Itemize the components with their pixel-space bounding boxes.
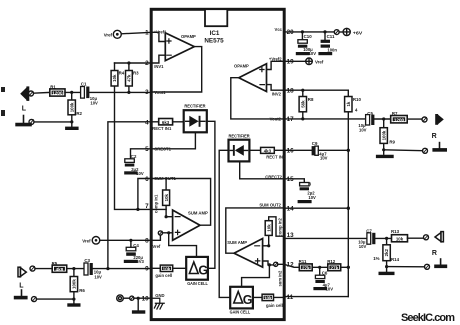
wire pin 13 to C7 xyxy=(284,237,367,239)
resistor R12 27k xyxy=(327,259,340,271)
wire pin 16 to C9 xyxy=(284,149,311,151)
wire pin 17 to C5 xyxy=(284,118,365,120)
resistor R10 1k xyxy=(345,97,362,297)
svg-text:gain cell: gain cell xyxy=(266,303,283,308)
ground (R14) xyxy=(380,272,393,275)
svg-text:11: 11 xyxy=(287,294,294,301)
svg-text:comp in1: comp in1 xyxy=(154,194,159,213)
node R6 top xyxy=(72,267,75,270)
svg-text:GND: GND xyxy=(155,293,164,298)
pin 17 xyxy=(270,116,294,123)
node C9 junction xyxy=(347,149,350,152)
wire C7 to R13 xyxy=(375,237,391,239)
terminal Vref (pin 1) xyxy=(104,30,151,38)
svg-text:R10: R10 xyxy=(353,97,362,102)
node R12 junction xyxy=(347,266,350,269)
svg-text:4k8: 4k8 xyxy=(56,267,64,272)
capacitor C3 10u 10V xyxy=(84,258,102,279)
op-amp OPAMP1 (channel 1, pins 1-3) xyxy=(165,33,196,61)
svg-text:RECT IN2: RECT IN2 xyxy=(266,154,286,159)
ground (C10) xyxy=(297,52,308,55)
op-amp OPAMP2 (channel 2, pins 17-19) xyxy=(234,63,267,91)
svg-text:CRECT2: CRECT2 xyxy=(265,174,282,179)
pin 11 xyxy=(287,294,294,301)
svg-text:R8: R8 xyxy=(308,97,314,102)
wire rectifier1 bottom to pin 5 xyxy=(151,132,195,149)
pin 15 xyxy=(265,174,294,183)
resistor R3 47k xyxy=(126,63,140,92)
wire rectifier1 output down to gain cell 1 xyxy=(207,121,215,268)
node R8 bottom xyxy=(301,117,304,120)
svg-text:27k: 27k xyxy=(330,265,338,270)
wire rectifier2 bottom to pin 15 xyxy=(240,161,285,178)
svg-text:1200: 1200 xyxy=(52,91,63,96)
internal resistor 10k (comp 1) xyxy=(163,179,170,217)
svg-text:10k: 10k xyxy=(266,224,271,232)
capacitor C11 100n xyxy=(321,32,338,53)
ground (C8) xyxy=(299,200,310,203)
wire R1 to C1 xyxy=(65,91,81,93)
svg-text:RECT IN1: RECT IN1 xyxy=(152,126,172,131)
terminal +6V xyxy=(334,28,362,35)
svg-text:gain cell: gain cell xyxy=(155,273,172,278)
svg-text:6: 6 xyxy=(145,176,149,183)
wire pin1 to opamp1 + input xyxy=(151,32,165,41)
resistor R9 100k xyxy=(380,119,396,154)
svg-text:NE575: NE575 xyxy=(204,38,224,45)
sum amp 2 xyxy=(227,239,262,268)
internal vref symbol at pin 8 xyxy=(152,231,162,249)
capacitor C7 10u 10V xyxy=(358,228,375,249)
wire C3 to pin 9 xyxy=(93,268,151,270)
resistor R4 10k xyxy=(111,63,166,209)
svg-text:CRECT1: CRECT1 xyxy=(154,147,171,152)
svg-text:C9: C9 xyxy=(312,141,318,146)
node C10 xyxy=(301,30,304,33)
wire rectifier2 output down to gain cell 2 xyxy=(219,150,230,297)
resistor R8 56k xyxy=(299,90,314,119)
ground (C11) xyxy=(320,52,331,55)
svg-text:C3: C3 xyxy=(84,258,90,263)
capacitor C2 2u2 10V xyxy=(125,154,144,176)
wire sum amp 1 - input xyxy=(166,216,173,218)
svg-text:IC1: IC1 xyxy=(210,30,220,37)
wire R5 to C3 xyxy=(67,268,84,270)
terminal L output ground xyxy=(32,297,74,302)
wire sum amp2 + node down to gain cell 2 top xyxy=(242,265,270,287)
wire pin2 to opamp1 - input xyxy=(151,55,165,63)
ground (R input connector) xyxy=(440,259,442,264)
ground (pin 10) xyxy=(134,298,144,312)
gain cell 2 (delta G) xyxy=(230,287,253,316)
svg-text:SeekIC.com: SeekIC.com xyxy=(401,312,455,324)
pin 13 xyxy=(277,217,294,238)
wire pin14 loop to sum amp 2 output xyxy=(226,208,285,253)
svg-text:R3: R3 xyxy=(133,70,139,75)
wire opamp2 output loop to pin 17 xyxy=(231,78,285,119)
terminal R input ground xyxy=(387,264,430,269)
svg-text:Vref: Vref xyxy=(82,238,91,243)
pin 12 xyxy=(287,262,295,269)
terminal L input ground xyxy=(29,119,72,124)
svg-text:4k3: 4k3 xyxy=(264,149,272,154)
wire pin 6 to pin 7 node xyxy=(138,179,152,210)
svg-text:47k: 47k xyxy=(127,74,132,82)
svg-text:Vref: Vref xyxy=(315,60,324,65)
wire sum amp 1 + input to pin 8 vref node xyxy=(151,233,173,241)
capacitor C4 220u 6V3 xyxy=(126,240,144,264)
capacitor C9 4u7 10V xyxy=(312,141,328,160)
wire pin 14 to feedback net xyxy=(284,207,348,209)
wire Vcc pin 20 xyxy=(284,31,334,33)
svg-text:R14: R14 xyxy=(391,257,400,262)
pin 8 xyxy=(145,237,149,244)
svg-text:R6: R6 xyxy=(79,288,85,293)
wire C9 to feedback net xyxy=(318,149,348,151)
svg-text:Vref: Vref xyxy=(152,244,161,249)
svg-text:10V: 10V xyxy=(359,127,367,132)
wire pin6 loop to sum amp 1 output xyxy=(152,179,211,226)
svg-text:GAIN CELL: GAIN CELL xyxy=(230,310,251,316)
node R9 bottom xyxy=(382,148,385,151)
svg-text:10V: 10V xyxy=(309,51,317,56)
svg-text:+Vref2: +Vref2 xyxy=(269,56,282,61)
svg-text:comp in2: comp in2 xyxy=(277,217,282,236)
svg-text:18: 18 xyxy=(287,87,295,94)
terminal Vref (pin 8) xyxy=(82,237,151,245)
resistor R5 4k8 xyxy=(52,261,67,273)
gain cell 1 (delta G) xyxy=(186,257,208,287)
node R6 bottom xyxy=(72,298,75,301)
node R3 bottom xyxy=(127,91,130,94)
svg-text:100k: 100k xyxy=(381,130,386,140)
node R3 top xyxy=(127,61,130,64)
svg-text:C2: C2 xyxy=(131,154,137,159)
svg-text:R4: R4 xyxy=(119,70,125,75)
wire sum amp 2 + input to pin 12 node xyxy=(263,261,285,265)
ground (C2) xyxy=(126,171,136,174)
resistor R11 27k xyxy=(299,259,313,271)
node ground junction pin 10 xyxy=(137,297,140,300)
svg-text:100k: 100k xyxy=(72,279,77,289)
wire sum amp 2 - input xyxy=(263,245,269,247)
resistor R13 10k xyxy=(391,229,408,242)
svg-text:5: 5 xyxy=(145,146,149,153)
svg-text:20: 20 xyxy=(287,29,295,36)
svg-text:L: L xyxy=(19,282,24,289)
svg-text:56k: 56k xyxy=(300,100,305,108)
wire pin 15 to C8 xyxy=(284,179,304,183)
ground (R2) xyxy=(67,122,77,128)
node R8 top xyxy=(301,89,304,92)
pin 2 xyxy=(145,60,164,69)
capacitor C1 10u 10V xyxy=(81,81,98,105)
node C6 junction xyxy=(318,266,321,269)
svg-text:1k: 1k xyxy=(346,101,351,106)
svg-text:RECTIFIER: RECTIFIER xyxy=(184,104,206,110)
node R14 bottom xyxy=(385,265,388,268)
svg-text:SUM OUT2: SUM OUT2 xyxy=(259,203,281,208)
pin 10 GND xyxy=(142,293,165,303)
capacitor C10 100u 10V xyxy=(298,32,316,56)
internal resistor 10k (gain cell 1 input) xyxy=(151,265,186,278)
internal ground symbol at pin 10 xyxy=(151,298,164,309)
svg-text:17: 17 xyxy=(287,116,295,123)
pin 1 xyxy=(145,29,167,36)
ground (C4) xyxy=(125,260,136,263)
svg-text:Vout2: Vout2 xyxy=(270,116,282,121)
wire C5 to R7 xyxy=(374,118,390,120)
rectifier block 1 xyxy=(184,104,207,133)
wire pin18 to opamp2 - input xyxy=(267,85,285,91)
pin 7 xyxy=(145,194,159,213)
pin 9 xyxy=(145,266,149,273)
svg-text:10k: 10k xyxy=(112,74,117,82)
resistor R14 2k2 1% xyxy=(373,238,399,271)
pin 18 xyxy=(272,87,294,96)
svg-text:Vout1: Vout1 xyxy=(154,90,166,95)
internal resistor 6k3 (rect in 1) xyxy=(151,119,184,125)
wire pin 5 to C2 xyxy=(131,149,152,159)
ground (R6) xyxy=(69,303,79,306)
svg-text:G: G xyxy=(198,264,208,278)
resistor R7 1200 xyxy=(391,111,408,123)
pin 16 xyxy=(266,148,294,160)
capacitor C6 4u7 10V xyxy=(315,267,333,291)
svg-text:INV2: INV2 xyxy=(272,91,282,96)
pin 20 xyxy=(275,27,295,36)
capacitor C8 2u2 10V xyxy=(300,181,316,200)
rectifier block 2 xyxy=(229,134,251,162)
capacitor C5 10u 10V xyxy=(358,111,374,132)
svg-text:INV1: INV1 xyxy=(154,64,164,69)
svg-text:OPAMP: OPAMP xyxy=(181,34,196,40)
terminal Vref (pin 19) xyxy=(284,58,323,65)
svg-text:C1: C1 xyxy=(81,81,87,86)
resistor R6 100k xyxy=(70,269,85,303)
svg-text:R2: R2 xyxy=(76,111,82,116)
pin 14 xyxy=(259,203,294,213)
svg-text:SUM AMP: SUM AMP xyxy=(227,240,247,246)
svg-text:10V: 10V xyxy=(320,156,328,161)
svg-text:10V: 10V xyxy=(90,101,98,106)
node R14 top xyxy=(385,237,388,240)
svg-text:10k: 10k xyxy=(396,237,404,242)
node R9 top xyxy=(382,117,385,120)
wire pin19 to opamp2 + input xyxy=(267,61,285,69)
node R2 top junction xyxy=(70,91,73,94)
svg-text:Vcc: Vcc xyxy=(275,27,283,32)
svg-text:Vref: Vref xyxy=(104,33,113,38)
svg-text:L: L xyxy=(22,105,27,112)
terminal GND (pin 10) xyxy=(117,295,151,302)
svg-text:R9: R9 xyxy=(389,140,395,145)
node R2 bottom junction xyxy=(70,120,73,123)
resistor R2 100k xyxy=(68,92,83,122)
node C11 xyxy=(323,30,326,33)
svg-text:OPAMP: OPAMP xyxy=(234,63,249,69)
wire R12 to feedback net xyxy=(341,266,349,268)
svg-text:R: R xyxy=(432,133,437,140)
svg-text:SUM AMP: SUM AMP xyxy=(188,211,208,217)
svg-text:10V: 10V xyxy=(308,195,316,200)
terminal R input signal xyxy=(408,235,429,240)
svg-text:10V: 10V xyxy=(359,244,367,249)
svg-text:R13: R13 xyxy=(391,229,400,234)
connector R output xyxy=(432,114,444,140)
svg-text:+6V: +6V xyxy=(353,31,363,36)
IC U1 NE575 body xyxy=(151,9,284,319)
svg-text:10k: 10k xyxy=(264,295,272,300)
svg-text:C10: C10 xyxy=(304,34,313,39)
svg-text:27k: 27k xyxy=(302,265,310,270)
ground (L input connector) xyxy=(23,116,25,124)
node gain-cell input junction xyxy=(106,267,109,270)
svg-text:2k2: 2k2 xyxy=(384,248,389,256)
svg-text:100k: 100k xyxy=(70,102,75,112)
internal resistor 10k (comp 2) xyxy=(265,217,284,246)
terminal R output ground xyxy=(384,148,428,153)
svg-text:4: 4 xyxy=(145,119,149,126)
ground (C6) xyxy=(315,287,325,290)
svg-text:1%: 1% xyxy=(373,256,379,261)
connector L input xyxy=(20,86,29,112)
svg-text:100n: 100n xyxy=(327,47,337,52)
pin 5 xyxy=(145,146,172,153)
svg-text:R: R xyxy=(432,250,437,257)
ground (R9) xyxy=(378,155,392,158)
wire pin 2 line xyxy=(115,62,152,64)
svg-text:G: G xyxy=(243,293,253,307)
svg-text:10: 10 xyxy=(142,296,150,303)
svg-text:10V: 10V xyxy=(94,274,102,279)
svg-text:SUM OUT1: SUM OUT1 xyxy=(154,176,176,181)
svg-text:10k: 10k xyxy=(163,266,171,271)
wire pin 18 net xyxy=(284,90,348,96)
node pin 14 junction xyxy=(347,207,350,210)
node pin6 wire on pin7 line xyxy=(136,208,139,211)
wire C1 to pin 3 line xyxy=(89,91,151,93)
wire R11 to R12 xyxy=(312,266,328,268)
svg-text:1200: 1200 xyxy=(394,117,405,122)
pin 3 xyxy=(145,89,166,96)
svg-text:10k: 10k xyxy=(164,193,169,201)
wire pin 12 to R11 xyxy=(284,264,299,267)
svg-text:C11: C11 xyxy=(327,34,335,39)
terminal L input signal xyxy=(29,91,50,96)
terminal L output signal xyxy=(30,266,52,271)
svg-text:6k3: 6k3 xyxy=(162,120,170,125)
wire opamp1 output loop to pin 3 xyxy=(151,47,202,92)
wire pin 4 to gain-cell input node xyxy=(108,122,151,269)
resistor R1 1200 xyxy=(50,85,65,97)
terminal R output signal xyxy=(407,117,427,122)
pin 4 xyxy=(145,119,172,131)
svg-text:GAIN CELL: GAIN CELL xyxy=(187,281,208,287)
svg-text:+Vref1: +Vref1 xyxy=(154,30,167,35)
internal resistor 10k (gain cell 2 input) xyxy=(253,294,285,308)
pin 19 xyxy=(269,56,294,65)
internal resistor 4k3 (rect in 2) xyxy=(249,147,284,153)
node C4 junction xyxy=(129,239,132,242)
ground (R output connector) xyxy=(439,143,441,148)
ground (L output connector) xyxy=(21,290,23,296)
pin 6 xyxy=(145,176,176,183)
svg-text:sum in2: sum in2 xyxy=(278,270,283,286)
wire sum amp1 + node down to gain cell 1 top xyxy=(169,233,197,257)
sum amp 1 xyxy=(173,210,209,240)
internal vref symbol at pin 12 xyxy=(274,262,283,286)
wire pin 11 to feedback net xyxy=(284,296,348,298)
connector L output xyxy=(18,267,26,289)
connector R input xyxy=(432,232,444,257)
